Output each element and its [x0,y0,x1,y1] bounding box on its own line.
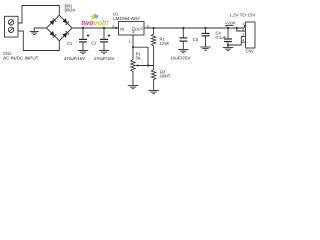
svg-text:volt!: volt! [94,19,110,27]
op-amp U1 LM1084-ADJ regulator box [119,22,145,36]
wire U1 OUT rail [144,27,244,29]
node ADJ junction [132,46,134,48]
diode BR1 lower-right [62,33,67,38]
ground R2 [148,91,158,94]
svg-text:1.2V TO 15V: 1.2V TO 15V [229,13,256,18]
svg-text:121E: 121E [160,41,170,46]
capacitor C4 [224,28,232,48]
node wiper junction [147,64,149,66]
ground C3 [200,47,210,50]
ground C2 [99,51,109,54]
ground C1 [78,51,88,54]
node C4 ground junction [227,44,229,46]
resistor R2 [151,66,155,91]
svg-text:470uF/16V: 470uF/16V [94,56,115,61]
wire ADJ branch right and down [133,47,148,65]
svg-text:C3: C3 [193,37,199,42]
bridge rectifier BR1 diamond [47,15,73,40]
node VOP junction [236,27,238,29]
connector CN1 body [5,16,19,37]
ground C4 [223,48,233,51]
node R1 rail junction [153,27,155,29]
wire VOP to CN2 pin2 [237,28,246,31]
ground C3a [178,50,188,53]
logo twovolt [81,14,109,27]
svg-text:OUT: OUT [135,26,144,31]
svg-text:3: 3 [112,25,114,29]
diode BR1 upper-left [50,20,55,25]
svg-text:BR34: BR34 [65,8,76,13]
diode BR1 upper-right [62,18,67,23]
node C3a rail junction [182,27,184,29]
svg-text:470uF/16V: 470uF/16V [64,56,85,61]
capacitor C2 [100,28,110,51]
svg-text:C2: C2 [91,40,97,45]
node C4 rail junction [227,27,229,29]
svg-text:10uF/25V: 10uF/25V [170,55,191,60]
svg-text:two: two [81,20,94,27]
wire CN1 pin1 to bridge AC top [18,6,59,24]
svg-text:AC IN/DC INPUT: AC IN/DC INPUT [3,55,39,60]
svg-text:+VOP: +VOP [225,21,236,26]
node C1 rail junction [82,27,84,29]
svg-text:IN: IN [120,26,124,31]
svg-text:1: 1 [129,40,131,44]
connector CN2 body [246,22,256,48]
node U1 IN junction [115,27,117,29]
diode BR1 lower-left [50,31,55,36]
svg-text:1: 1 [242,22,244,26]
ground P1 [128,86,138,89]
svg-text:5K: 5K [136,55,141,60]
resistor R1 [151,28,155,66]
wire bridge minus to ground [34,28,46,32]
net label +VOP [225,21,236,27]
capacitor C3a 10uF [179,28,187,50]
wire U1 ADJ pin down [132,35,134,47]
ground input [30,32,39,35]
capacitor C1 [79,28,89,51]
node C2 rail junction [103,27,105,29]
svg-text:ADJ: ADJ [132,27,136,34]
wire main +rail bridge to U1 IN [72,27,118,29]
wire CN1 pin2 to bridge AC bottom [18,31,59,51]
svg-text:CN2: CN2 [246,48,255,53]
svg-text:3: 3 [242,33,244,37]
wire CN2 pin3 pin4 ground bus [228,37,246,45]
svg-text:2: 2 [242,28,244,32]
node C3 rail junction [204,27,206,29]
svg-text:LM1084-ADJ: LM1084-ADJ [113,16,140,21]
potentiometer P1 [131,47,154,85]
svg-text:4: 4 [242,39,244,43]
capacitor C3 [202,28,210,47]
wire VOP to CN2 pin1 [244,26,245,29]
svg-text:OMIT: OMIT [160,74,171,79]
svg-text:C1: C1 [67,41,73,46]
